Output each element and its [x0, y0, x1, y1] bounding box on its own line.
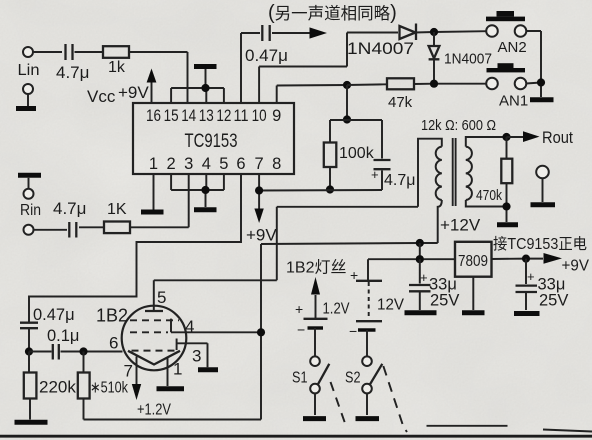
svg-text:14: 14 [181, 107, 196, 125]
svg-text:Rin: Rin [20, 202, 41, 219]
svg-text:3: 3 [192, 347, 201, 366]
svg-text:4.7μ: 4.7μ [53, 199, 86, 218]
svg-text:(另一声道相同略): (另一声道相同略) [268, 2, 397, 24]
svg-text:+: + [295, 301, 303, 317]
svg-text:11: 11 [234, 107, 249, 125]
svg-text:∗510k: ∗510k [90, 380, 129, 397]
svg-text:12k Ω: 600 Ω: 12k Ω: 600 Ω [421, 117, 496, 134]
svg-text:接TC9153正电: 接TC9153正电 [493, 235, 587, 253]
svg-text:5: 5 [219, 155, 228, 173]
svg-text:5: 5 [157, 288, 166, 307]
svg-text:8: 8 [272, 155, 281, 173]
svg-text:1N4007: 1N4007 [444, 51, 492, 68]
svg-text:S2: S2 [345, 370, 361, 387]
svg-text:1K: 1K [107, 201, 127, 218]
svg-text:+: + [371, 167, 379, 182]
svg-text:+9V: +9V [246, 226, 277, 245]
svg-text:+9V: +9V [562, 258, 590, 275]
svg-text:15: 15 [164, 107, 179, 125]
svg-text:1B2: 1B2 [96, 306, 128, 326]
svg-text:0.47μ: 0.47μ [33, 306, 75, 324]
svg-text:TC9153: TC9153 [185, 131, 238, 152]
svg-text:7: 7 [255, 155, 264, 173]
svg-text:Lin: Lin [18, 62, 40, 79]
svg-text:3: 3 [184, 155, 193, 173]
svg-text:0.1μ: 0.1μ [47, 327, 79, 345]
svg-text:1: 1 [173, 360, 182, 379]
svg-text:+: + [420, 270, 428, 285]
svg-text:1k: 1k [108, 59, 126, 76]
svg-text:16: 16 [146, 107, 161, 125]
svg-text:220k: 220k [39, 378, 76, 397]
svg-text:7809: 7809 [458, 253, 488, 270]
svg-text:Vcc: Vcc [87, 87, 116, 106]
svg-text:12V: 12V [377, 297, 404, 314]
svg-text:AN1: AN1 [499, 93, 528, 110]
svg-text:4: 4 [202, 155, 211, 173]
svg-text:−: − [297, 322, 305, 338]
svg-text:4.7μ: 4.7μ [384, 172, 415, 189]
svg-text:1.2V: 1.2V [323, 301, 350, 318]
svg-text:6: 6 [236, 155, 245, 173]
svg-text:7: 7 [124, 362, 133, 381]
svg-text:6: 6 [109, 334, 118, 353]
svg-text:+1.2V: +1.2V [137, 402, 171, 419]
svg-text:1B2灯丝: 1B2灯丝 [286, 259, 346, 277]
svg-text:Rout: Rout [542, 129, 573, 147]
svg-text:47k: 47k [388, 94, 413, 111]
svg-text:1: 1 [149, 155, 158, 173]
svg-text:9: 9 [272, 107, 281, 125]
svg-text:0.47μ: 0.47μ [245, 46, 288, 65]
svg-text:4.7μ: 4.7μ [56, 63, 89, 82]
svg-text:25V: 25V [539, 292, 568, 310]
svg-text:10: 10 [252, 107, 267, 125]
svg-text:S1: S1 [292, 370, 308, 387]
svg-text:AN2: AN2 [498, 39, 527, 56]
svg-text:100k: 100k [339, 145, 375, 162]
svg-text:+9V: +9V [118, 83, 149, 102]
svg-text:470k: 470k [476, 187, 502, 204]
svg-text:12: 12 [216, 107, 231, 125]
svg-text:+: + [527, 269, 535, 284]
svg-text:1N4007: 1N4007 [347, 40, 414, 58]
svg-text:−: − [349, 323, 357, 339]
svg-text:25V: 25V [430, 292, 459, 310]
svg-text:13: 13 [199, 107, 214, 125]
svg-text:2: 2 [167, 155, 176, 173]
svg-text:+12V: +12V [440, 216, 481, 235]
svg-text:4: 4 [185, 317, 194, 336]
